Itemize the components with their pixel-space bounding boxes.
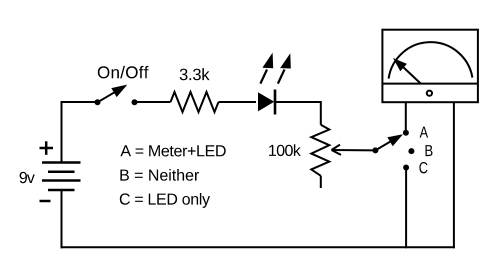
- node A dot: [403, 130, 409, 136]
- meter M1 needle: [393, 58, 421, 84]
- node C dot: [403, 165, 409, 171]
- legend line B: [120, 169, 199, 181]
- node B dot: [408, 148, 414, 154]
- meter M1 terminal circle: [427, 91, 432, 96]
- wire: switch to R1: [135, 101, 171, 103]
- node: selector common pivot dot: [372, 147, 378, 153]
- VR1 wiper open arrow and lead: [332, 145, 376, 155]
- battery B1 plus sign: [40, 141, 54, 155]
- label 3.3k: [180, 68, 210, 80]
- meter M1 panel divider: [382, 83, 478, 85]
- battery B1 plates: [42, 163, 81, 191]
- wire: battery + up to top rail: [62, 102, 98, 163]
- wire: LED cathode to pot top: [276, 102, 321, 125]
- meter M1 case: [382, 30, 478, 103]
- wire: R1 to LED anode: [219, 101, 257, 103]
- legend line A: [120, 145, 225, 156]
- LED D1 light emission arrows: [260, 53, 290, 84]
- wire: bottom rail: [61, 246, 455, 248]
- switch S1 right contact dot: [132, 99, 138, 105]
- label 9v: [20, 172, 35, 183]
- LED D1 anode triangle: [258, 92, 274, 111]
- wire: node C down to bottom rail: [405, 170, 407, 248]
- battery B1 minus sign: [40, 200, 51, 203]
- LED D1 cathode bar: [274, 90, 277, 115]
- label C: [419, 162, 427, 173]
- legend line C: [120, 193, 210, 208]
- VR1 unused bottom stub: [320, 176, 322, 188]
- label On/Off: [98, 66, 149, 79]
- potentiometer VR1 track zigzag: [311, 125, 329, 176]
- wire: battery - down to bottom rail: [61, 190, 63, 248]
- switch S1 left contact dot: [95, 99, 101, 105]
- resistor R1 zigzag: [171, 92, 219, 112]
- label B: [426, 145, 433, 156]
- wire: meter left terminal down to node A: [405, 102, 407, 131]
- label 100k: [269, 144, 301, 156]
- wire: meter right terminal down to bottom rail: [453, 102, 455, 248]
- meter M1 scale arc: [389, 42, 473, 78]
- switch S1 arm with arrowhead: [98, 85, 128, 103]
- label A: [420, 127, 429, 138]
- selector switch S2 arm with arrowhead: [375, 134, 403, 150]
